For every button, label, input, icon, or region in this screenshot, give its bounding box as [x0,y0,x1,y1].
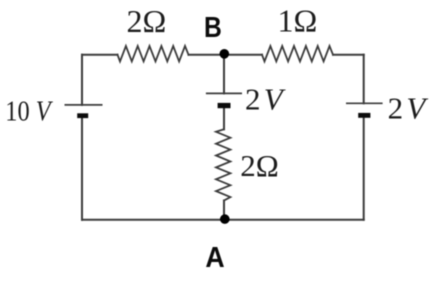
wire R2 to top-right corner [333,54,364,56]
svg-text:2V: 2V [388,90,429,125]
svg-text:1Ω: 1Ω [278,3,318,39]
svg-text:A: A [205,241,224,273]
svg-text:10 V: 10 V [5,94,53,126]
resistor R1 2ohm top-left zigzag [118,46,189,61]
wire bottom horizontal [82,219,364,221]
svg-text:B: B [204,11,222,43]
battery V1 10V short plate [77,113,88,118]
svg-text:2Ω: 2Ω [127,3,167,39]
wire left vertical lower (battery to bottom) [81,118,83,220]
battery V2 2V middle long plate [206,92,242,94]
wire left vertical upper (corner to battery) [81,55,83,105]
battery V1 10V long plate [65,104,103,106]
wire middle battery to R3 [223,108,225,129]
battery V3 2V right long plate [346,102,383,104]
wire top-left horizontal (corner to R1) [82,54,118,56]
wire R3 to node A [223,201,225,220]
resistor R2 1ohm top-right zigzag [262,46,333,61]
wire right vertical upper (corner to battery) [363,55,365,104]
svg-text:2Ω: 2Ω [240,148,279,183]
wire R1 to node B to R2 [189,54,263,56]
wire node B down to middle battery [223,54,225,94]
node A junction dot [220,214,230,224]
battery V2 2V middle short plate [218,103,231,108]
node B junction dot [220,49,230,59]
svg-text:2V: 2V [245,82,286,117]
wire right vertical lower (battery to bottom) [363,118,365,220]
resistor R3 2ohm vertical zigzag [216,129,230,200]
battery V3 2V right short plate [358,113,370,118]
